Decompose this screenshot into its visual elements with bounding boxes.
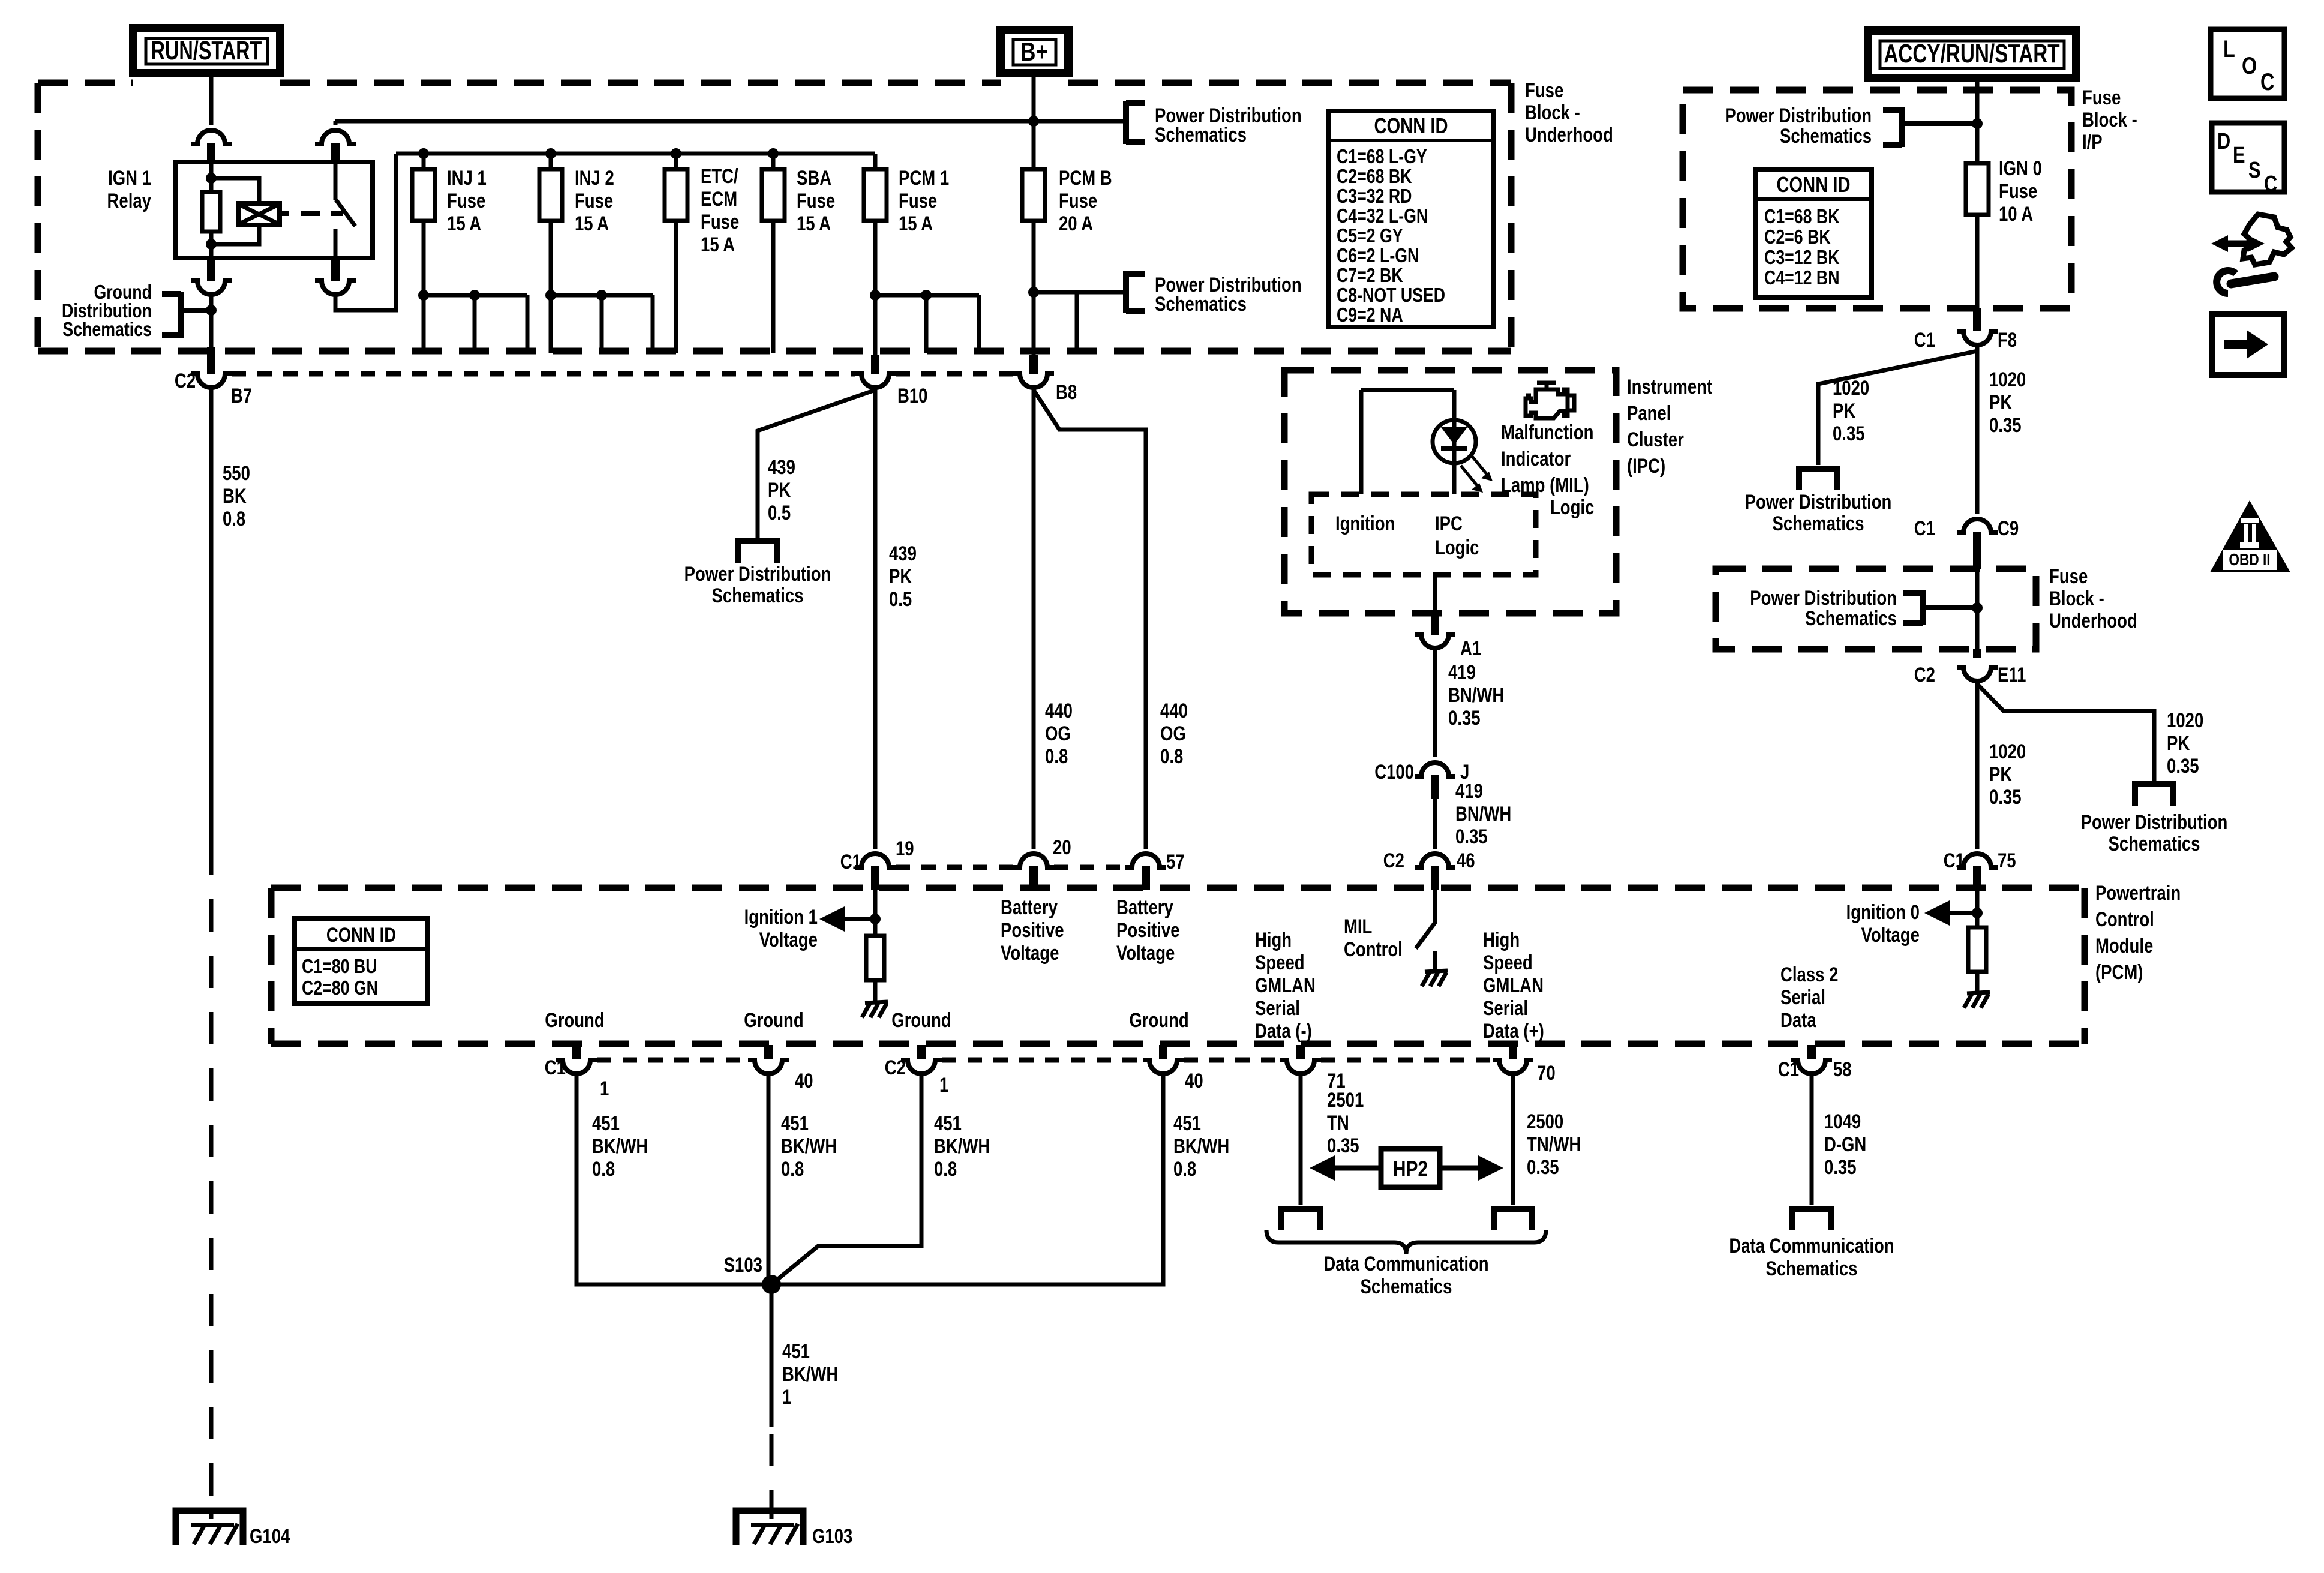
svg-text:INJ 2: INJ 2 [575,166,614,189]
svg-text:1049: 1049 [1824,1110,1861,1133]
svg-text:C2: C2 [175,369,196,392]
svg-text:550: 550 [223,461,250,484]
svg-text:C2: C2 [1914,663,1935,686]
svg-text:Schematics: Schematics [2108,832,2200,855]
svg-text:Block -: Block - [2082,108,2137,131]
svg-text:1: 1 [782,1385,791,1408]
svg-text:Speed: Speed [1483,951,1533,974]
svg-text:D: D [2217,129,2230,154]
svg-text:0.8: 0.8 [934,1157,957,1180]
svg-text:440: 440 [1160,699,1188,722]
svg-text:Ground: Ground [545,1008,604,1031]
svg-text:15 A: 15 A [701,233,735,256]
svg-text:IGN 1: IGN 1 [108,166,151,189]
svg-text:C2=68 BK: C2=68 BK [1337,166,1412,187]
svg-text:A1: A1 [1460,637,1481,659]
svg-text:Instrument: Instrument [1627,375,1712,398]
svg-text:S: S [2248,158,2261,183]
svg-text:439: 439 [768,455,795,478]
svg-text:C1: C1 [545,1056,566,1079]
svg-text:E: E [2233,143,2245,168]
svg-text:Malfunction: Malfunction [1501,421,1593,443]
svg-text:Module: Module [2095,934,2153,957]
svg-text:Fuse: Fuse [1059,189,1097,212]
svg-text:Fuse: Fuse [1999,179,2037,202]
svg-text:B+: B+ [1020,38,1049,67]
svg-text:57: 57 [1166,850,1185,873]
svg-text:BK: BK [223,484,247,507]
svg-text:Ignition 1: Ignition 1 [744,905,818,928]
svg-text:Data (+): Data (+) [1483,1019,1544,1042]
svg-text:Powertrain: Powertrain [2095,881,2181,904]
svg-text:Positive: Positive [1116,918,1180,941]
svg-text:1: 1 [600,1077,609,1100]
svg-text:PCM B: PCM B [1059,166,1112,189]
svg-text:D-GN: D-GN [1824,1133,1866,1155]
svg-text:Logic: Logic [1550,496,1594,518]
svg-text:Control: Control [2095,908,2154,930]
svg-text:70: 70 [1537,1061,1556,1084]
svg-text:C5=2 GY: C5=2 GY [1337,225,1403,247]
svg-text:E11: E11 [1998,663,2026,686]
svg-text:ECM: ECM [701,187,737,210]
svg-text:BK/WH: BK/WH [1173,1134,1229,1157]
svg-text:C1: C1 [1944,849,1965,872]
svg-text:Schematics: Schematics [1805,607,1897,629]
svg-text:Speed: Speed [1255,951,1305,974]
svg-text:419: 419 [1455,779,1483,802]
svg-text:0.8: 0.8 [1045,745,1068,767]
svg-text:I/P: I/P [2082,130,2103,153]
svg-text:451: 451 [1173,1112,1201,1134]
svg-text:46: 46 [1457,849,1475,872]
svg-text:Fuse: Fuse [2082,86,2121,109]
svg-text:PK: PK [768,478,791,501]
svg-text:GMLAN: GMLAN [1483,974,1544,996]
svg-text:TN/WH: TN/WH [1527,1133,1581,1155]
svg-text:15 A: 15 A [447,212,481,235]
svg-text:PK: PK [2167,731,2190,754]
svg-text:C3=12 BK: C3=12 BK [1764,247,1840,268]
svg-text:Data: Data [1780,1008,1816,1031]
svg-text:2500: 2500 [1527,1110,1563,1133]
svg-text:Schematics: Schematics [62,319,152,340]
svg-text:Voltage: Voltage [1116,941,1175,964]
svg-text:Data Communication: Data Communication [1729,1234,1894,1257]
svg-text:C2: C2 [1383,849,1404,872]
svg-text:C9: C9 [1998,517,2019,539]
svg-text:BN/WH: BN/WH [1455,802,1511,825]
svg-text:Power Distribution: Power Distribution [1725,104,1872,127]
svg-text:40: 40 [795,1069,813,1092]
svg-text:Schematics: Schematics [1766,1257,1858,1280]
svg-text:Schematics: Schematics [1780,124,1872,147]
svg-text:0.8: 0.8 [781,1157,804,1180]
svg-text:15 A: 15 A [899,212,933,235]
svg-text:0.35: 0.35 [2167,754,2199,777]
svg-text:L: L [2223,35,2235,62]
svg-text:451: 451 [592,1112,620,1134]
svg-text:BK/WH: BK/WH [592,1134,648,1157]
svg-text:C1=68 L-GY: C1=68 L-GY [1337,146,1427,167]
svg-text:C1=68 BK: C1=68 BK [1764,206,1840,227]
svg-text:Fuse: Fuse [899,189,937,212]
svg-text:PCM 1: PCM 1 [899,166,949,189]
svg-text:2501: 2501 [1327,1088,1364,1111]
svg-text:B7: B7 [231,384,252,407]
svg-text:Block -: Block - [1525,101,1580,124]
svg-text:C: C [2264,172,2277,197]
svg-text:Control: Control [1344,938,1403,960]
svg-text:Schematics: Schematics [1155,123,1247,146]
svg-text:C1: C1 [1914,328,1935,351]
svg-text:Fuse: Fuse [1525,79,1563,101]
svg-text:Fuse: Fuse [447,189,485,212]
svg-text:C4=32 L-GN: C4=32 L-GN [1337,205,1428,227]
svg-text:419: 419 [1448,661,1476,683]
svg-text:Serial: Serial [1483,996,1528,1019]
svg-text:0.35: 0.35 [1824,1155,1857,1178]
svg-text:IGN 0: IGN 0 [1999,157,2042,179]
svg-text:Schematics: Schematics [1360,1275,1452,1298]
svg-text:Power Distribution: Power Distribution [684,562,831,585]
svg-text:10 A: 10 A [1999,202,2033,225]
svg-text:Fuse: Fuse [575,189,613,212]
svg-text:1020: 1020 [1989,368,2026,391]
svg-text:1020: 1020 [1989,740,2026,763]
svg-text:Panel: Panel [1627,401,1671,424]
svg-text:Data Communication: Data Communication [1323,1252,1488,1275]
svg-text:High: High [1255,928,1292,951]
svg-text:B10: B10 [897,384,928,407]
svg-text:Block -: Block - [2049,587,2104,610]
svg-text:Ground: Ground [891,1008,951,1031]
svg-text:15 A: 15 A [575,212,609,235]
svg-text:Data (-): Data (-) [1255,1019,1312,1042]
svg-text:CONN ID: CONN ID [1374,113,1448,138]
svg-text:Battery: Battery [1116,896,1174,918]
svg-text:451: 451 [781,1112,809,1134]
svg-text:Schematics: Schematics [1155,292,1247,315]
svg-text:BK/WH: BK/WH [781,1134,837,1157]
svg-text:C: C [2260,68,2274,95]
svg-text:0.35: 0.35 [1833,422,1865,445]
svg-text:Fuse: Fuse [797,189,835,212]
svg-text:1020: 1020 [2167,709,2203,731]
svg-text:0.35: 0.35 [1989,785,2022,808]
svg-text:Underhood: Underhood [2049,609,2137,632]
svg-text:IPC: IPC [1435,512,1463,535]
svg-text:Voltage: Voltage [1001,941,1059,964]
svg-text:Power Distribution: Power Distribution [1750,586,1897,609]
svg-text:MIL: MIL [1344,915,1372,938]
svg-text:C2=80 GN: C2=80 GN [302,977,378,999]
svg-text:Underhood: Underhood [1525,123,1613,146]
svg-text:Indicator: Indicator [1501,447,1571,470]
svg-text:PK: PK [889,565,912,587]
svg-text:Fuse: Fuse [701,210,739,233]
svg-text:RUN/START: RUN/START [151,37,262,65]
svg-text:Logic: Logic [1435,536,1479,559]
svg-text:OG: OG [1045,722,1071,745]
svg-text:0.8: 0.8 [1160,745,1183,767]
svg-text:BK/WH: BK/WH [934,1134,990,1157]
svg-text:CONN ID: CONN ID [1776,172,1850,197]
svg-text:ACCY/RUN/START: ACCY/RUN/START [1884,40,2060,68]
svg-text:B8: B8 [1056,380,1077,403]
svg-text:F8: F8 [1998,328,2017,351]
svg-text:0.35: 0.35 [1448,706,1481,729]
svg-text:C1: C1 [1914,517,1935,539]
svg-text:C7=2 BK: C7=2 BK [1337,265,1403,286]
svg-text:1020: 1020 [1833,376,1869,399]
svg-text:C8-NOT USED: C8-NOT USED [1337,284,1445,306]
svg-text:C2=6 BK: C2=6 BK [1764,226,1831,248]
svg-text:451: 451 [782,1340,810,1362]
svg-text:O: O [2242,52,2257,79]
svg-text:C1: C1 [840,850,861,873]
svg-text:Ground: Ground [1129,1008,1188,1031]
svg-text:0.35: 0.35 [1327,1134,1359,1157]
svg-text:0.35: 0.35 [1527,1155,1559,1178]
svg-text:Cluster: Cluster [1627,428,1684,451]
svg-text:Voltage: Voltage [1861,923,1920,946]
svg-text:C1=80 BU: C1=80 BU [302,956,377,977]
svg-text:Schematics: Schematics [712,584,804,607]
svg-text:S103: S103 [724,1253,762,1276]
svg-text:Power Distribution: Power Distribution [2081,810,2228,833]
svg-text:Serial: Serial [1780,986,1825,1008]
svg-text:Battery: Battery [1001,896,1058,918]
svg-text:19: 19 [896,837,914,860]
svg-text:Ignition 0: Ignition 0 [1846,900,1920,923]
svg-text:Ignition: Ignition [1335,512,1395,535]
svg-text:PK: PK [1833,399,1856,422]
svg-text:Ground: Ground [744,1008,803,1031]
svg-text:40: 40 [1185,1069,1203,1092]
svg-text:439: 439 [889,542,917,565]
svg-text:Positive: Positive [1001,918,1064,941]
svg-text:Lamp (MIL): Lamp (MIL) [1501,473,1589,496]
svg-text:HP2: HP2 [1393,1157,1428,1182]
svg-text:1: 1 [939,1073,948,1096]
svg-text:0.35: 0.35 [1455,825,1488,848]
svg-text:GMLAN: GMLAN [1255,974,1316,996]
svg-text:20 A: 20 A [1059,212,1093,235]
svg-text:Class 2: Class 2 [1780,963,1838,986]
svg-text:C4=12 BN: C4=12 BN [1764,267,1839,289]
svg-text:G104: G104 [250,1524,290,1547]
svg-text:PK: PK [1989,763,2013,785]
svg-text:C3=32 RD: C3=32 RD [1337,185,1412,207]
svg-text:0.8: 0.8 [223,507,245,530]
svg-text:Voltage: Voltage [759,928,818,951]
svg-text:INJ 1: INJ 1 [447,166,487,189]
svg-text:(PCM): (PCM) [2095,960,2143,983]
svg-text:OG: OG [1160,722,1186,745]
svg-text:C6=2 L-GN: C6=2 L-GN [1337,245,1419,266]
svg-text:High: High [1483,928,1520,951]
svg-text:0.5: 0.5 [889,587,912,610]
svg-text:BK/WH: BK/WH [782,1362,838,1385]
svg-text:(IPC): (IPC) [1627,454,1665,477]
svg-text:C2: C2 [885,1056,906,1079]
svg-text:Fuse: Fuse [2049,565,2088,587]
svg-text:0.5: 0.5 [768,501,791,524]
svg-text:20: 20 [1053,836,1071,858]
svg-text:C1: C1 [1778,1058,1799,1080]
svg-text:451: 451 [934,1112,962,1134]
svg-text:C9=2 NA: C9=2 NA [1337,304,1403,326]
svg-text:15 A: 15 A [797,212,831,235]
svg-text:58: 58 [1833,1058,1852,1080]
svg-text:0.8: 0.8 [592,1157,615,1180]
svg-text:BN/WH: BN/WH [1448,683,1504,706]
svg-text:75: 75 [1998,849,2016,872]
svg-text:C100: C100 [1374,760,1414,783]
svg-text:Relay: Relay [107,189,152,212]
svg-text:Power Distribution: Power Distribution [1745,490,1892,513]
svg-text:Schematics: Schematics [1773,512,1864,535]
svg-text:G103: G103 [812,1524,852,1547]
svg-text:PK: PK [1989,391,2013,413]
svg-text:TN: TN [1327,1111,1349,1134]
svg-text:ETC/: ETC/ [701,164,738,187]
svg-text:0.8: 0.8 [1173,1157,1196,1180]
svg-text:SBA: SBA [797,166,831,189]
svg-text:440: 440 [1045,699,1073,722]
svg-text:0.35: 0.35 [1989,413,2022,436]
svg-text:Serial: Serial [1255,996,1300,1019]
svg-text:OBD II: OBD II [2229,551,2270,569]
svg-text:CONN ID: CONN ID [326,923,396,946]
